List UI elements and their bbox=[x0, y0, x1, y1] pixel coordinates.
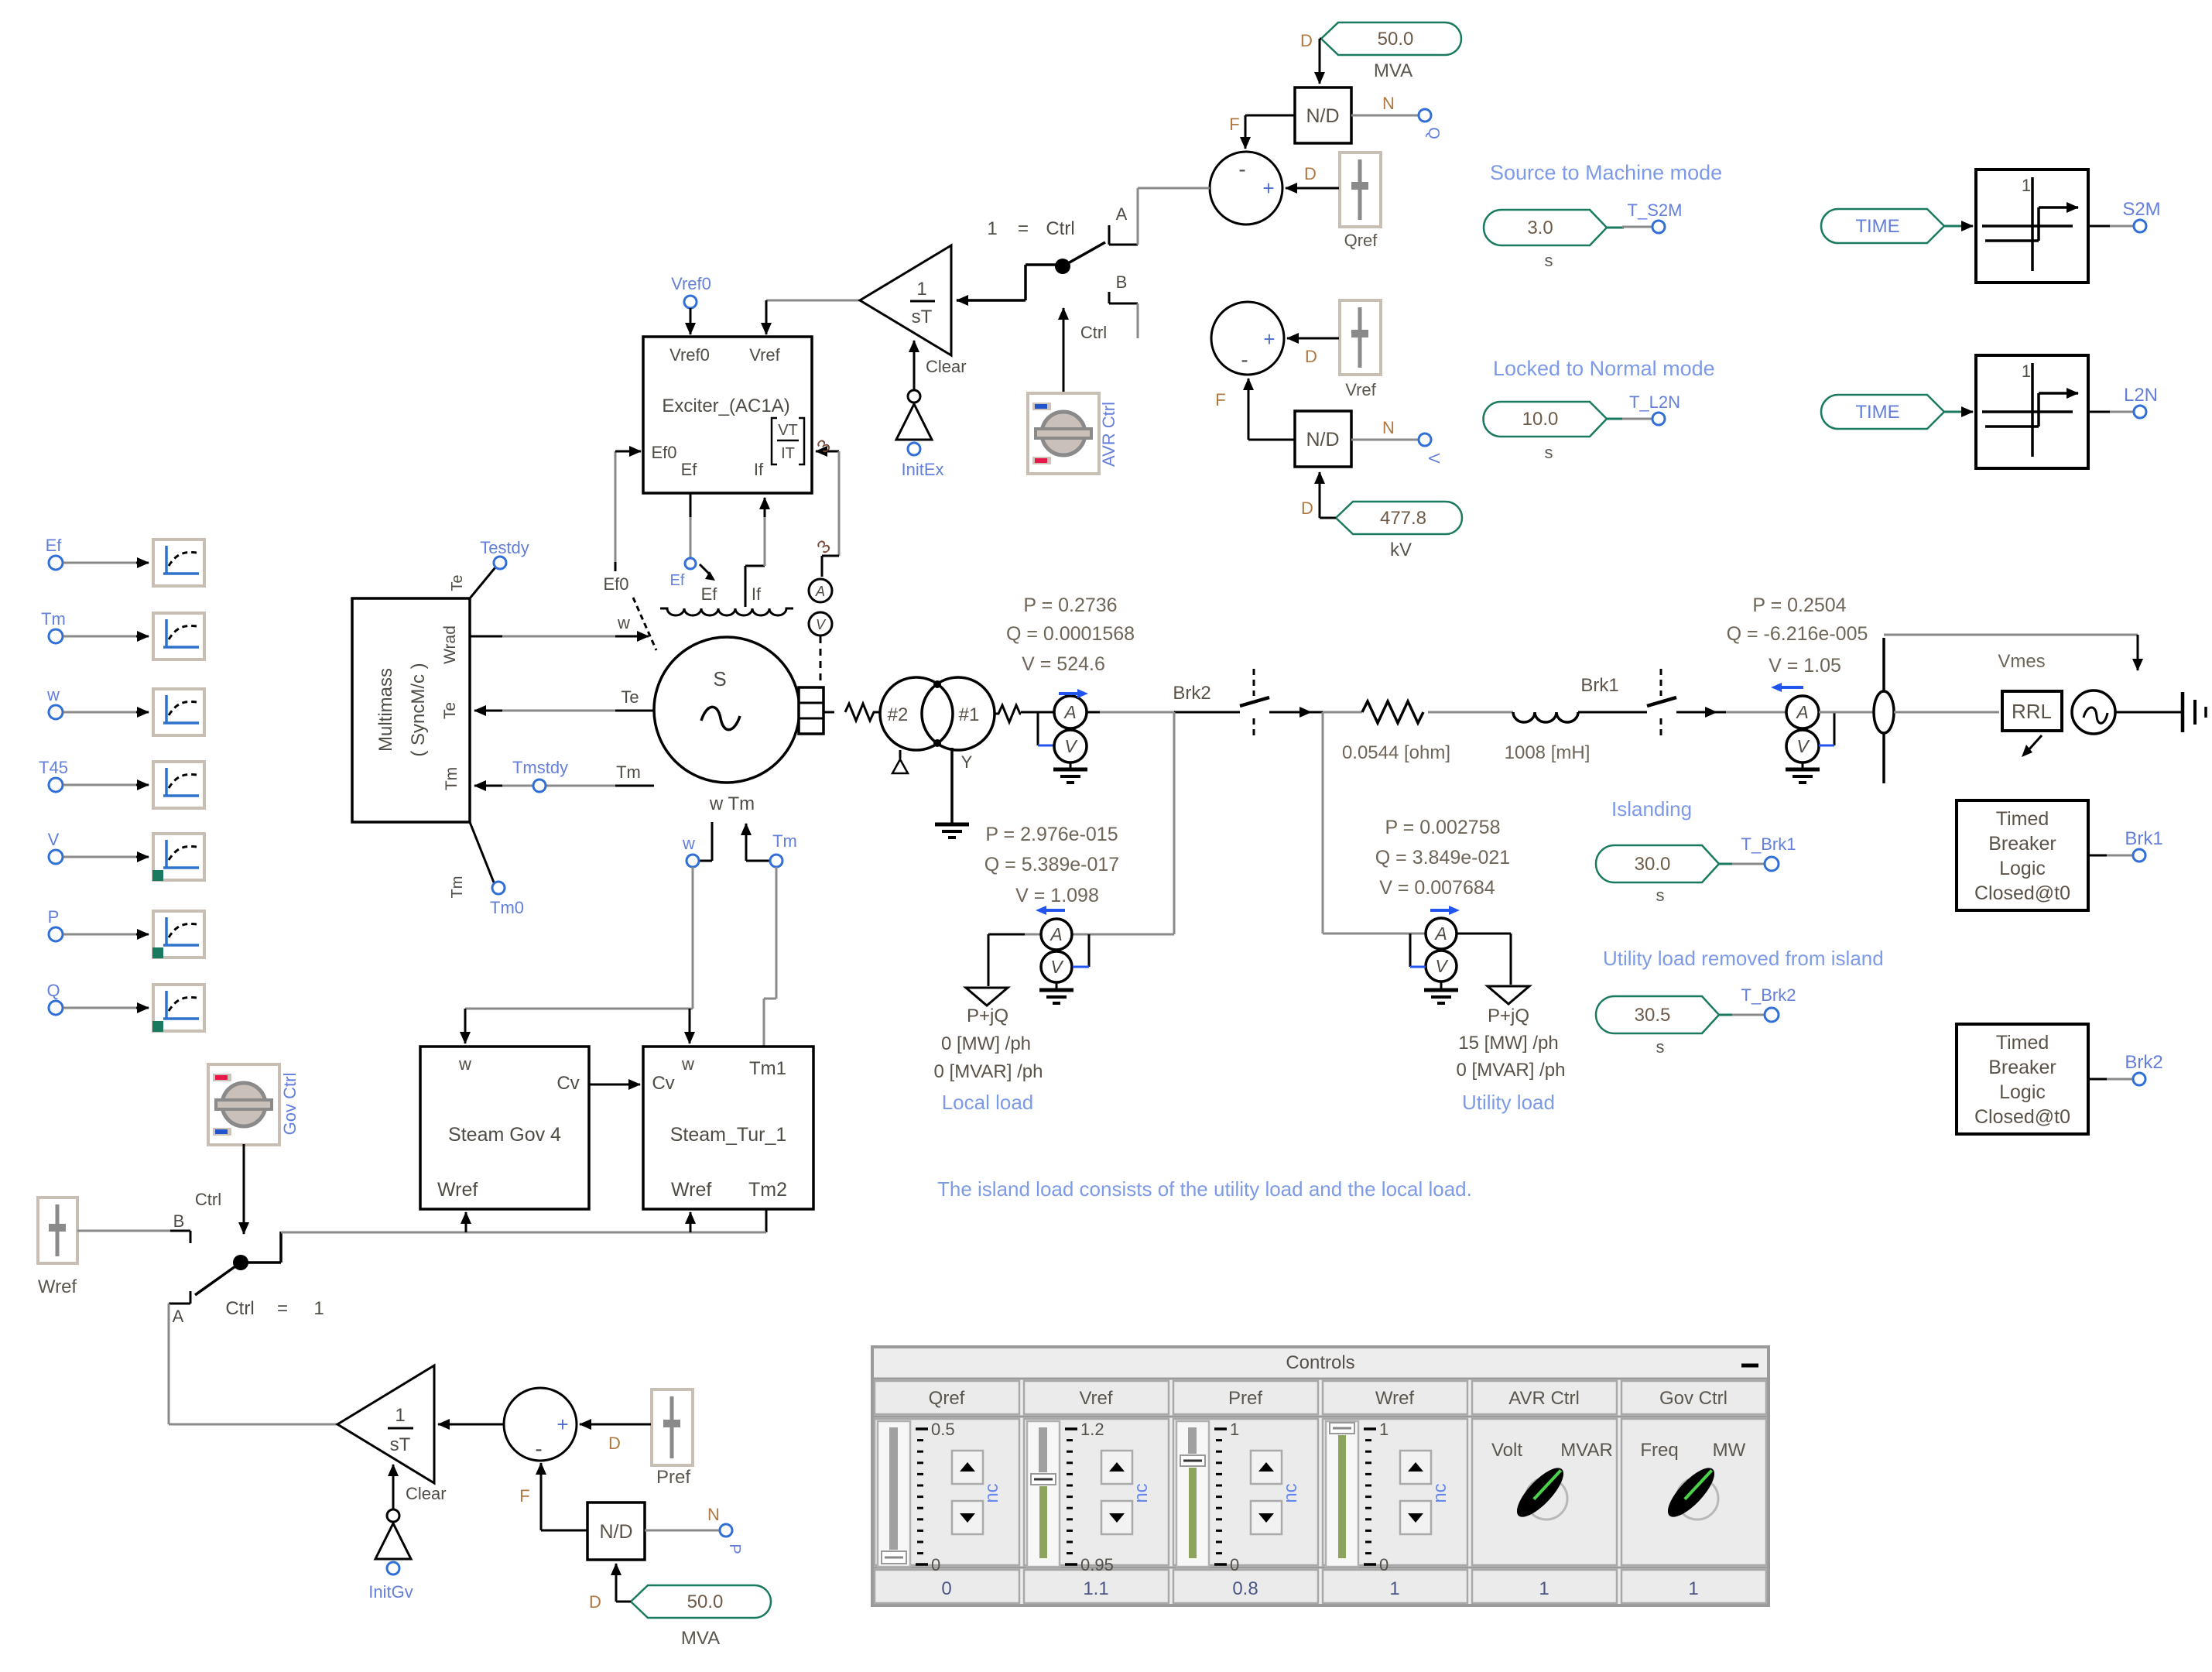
divider N/D (V pu) bbox=[1295, 411, 1351, 467]
svg-text:D: D bbox=[589, 1592, 601, 1612]
bus wire to Brk2 bbox=[1087, 711, 1240, 714]
svg-text:w: w bbox=[681, 1054, 694, 1074]
svg-text:S: S bbox=[713, 667, 726, 690]
svg-text:1: 1 bbox=[395, 1405, 405, 1426]
svg-text:1: 1 bbox=[313, 1298, 324, 1319]
svg-text:P: P bbox=[48, 907, 60, 927]
svg-text:N/D: N/D bbox=[1306, 105, 1339, 127]
machine terminal block bbox=[799, 687, 834, 734]
svg-text:V: V bbox=[1064, 736, 1078, 756]
svg-text:F: F bbox=[519, 1486, 529, 1506]
breaker Brk1 bbox=[1580, 669, 1717, 740]
summer (Qref comparison) bbox=[1210, 152, 1282, 224]
svg-text:1: 1 bbox=[2022, 361, 2031, 381]
svg-text:If: If bbox=[754, 460, 764, 479]
svg-text:Utility load: Utility load bbox=[1462, 1091, 1555, 1114]
panel dial AVR Ctrl bbox=[1491, 1440, 1613, 1523]
svg-text:TIME: TIME bbox=[1855, 216, 1899, 237]
svg-text:N: N bbox=[707, 1505, 720, 1524]
svg-text:Multimass: Multimass bbox=[375, 668, 396, 752]
utility load measurement text bbox=[1375, 817, 1510, 899]
svg-text:N/D: N/D bbox=[1306, 429, 1339, 451]
svg-text:Q = 3.849e-021: Q = 3.849e-021 bbox=[1375, 847, 1510, 869]
integrator 1/sT (AVR) bbox=[860, 245, 951, 355]
svg-text:1: 1 bbox=[1389, 1578, 1399, 1599]
svg-text:Te: Te bbox=[441, 702, 459, 719]
multimass (SyncM/c) block bbox=[352, 598, 470, 822]
comparator step block (L2N) bbox=[1963, 355, 2088, 468]
svg-text:0.0544 [ohm]: 0.0544 [ohm] bbox=[1342, 742, 1450, 763]
ammeter voltmeter (utility load) bbox=[1410, 906, 1511, 985]
svg-text:N/D: N/D bbox=[599, 1521, 632, 1543]
data label TIME (L2N) bbox=[1821, 395, 1963, 429]
svg-text:V: V bbox=[1050, 957, 1064, 977]
svg-text:D: D bbox=[1304, 164, 1317, 183]
svg-text:F: F bbox=[1229, 115, 1239, 134]
wire to source ammeter bbox=[1717, 711, 1786, 714]
ammeter voltmeter (machine terminal) bbox=[1038, 689, 1088, 762]
local load P+jQ bbox=[934, 988, 1043, 1114]
Vmes measurement wire bbox=[1884, 635, 2138, 672]
svg-text:Wref: Wref bbox=[437, 1179, 478, 1201]
svg-text:Testdy: Testdy bbox=[480, 538, 529, 557]
plot channel w bbox=[46, 685, 204, 735]
svg-text:10.0: 10.0 bbox=[1522, 409, 1559, 430]
svg-text:The island load consists of th: The island load consists of the utility … bbox=[937, 1177, 1472, 1201]
svg-text:D: D bbox=[1301, 499, 1313, 518]
svg-text:Source to Machine mode: Source to Machine mode bbox=[1490, 161, 1722, 184]
wire Ef0 (machine to exciter) bbox=[603, 451, 641, 594]
svg-text:1: 1 bbox=[1539, 1578, 1549, 1599]
svg-text:50.0: 50.0 bbox=[1378, 29, 1414, 50]
node Vref0 bbox=[671, 274, 711, 334]
svg-text:kV: kV bbox=[1390, 540, 1412, 560]
svg-text:+: + bbox=[1263, 327, 1275, 351]
comparator step block (S2M) bbox=[1963, 170, 2088, 283]
ground under voltmeter bbox=[1053, 762, 1087, 783]
measurement text P Q V (machine terminal) bbox=[1006, 594, 1135, 675]
timed breaker logic Brk1 bbox=[1957, 800, 2163, 910]
wire w to steam governor/turbine bbox=[465, 867, 693, 1043]
svg-text:TIME: TIME bbox=[1855, 402, 1899, 423]
svg-text:If: If bbox=[752, 584, 762, 604]
node Ef (field voltage) bbox=[670, 493, 718, 604]
svg-text:MVA: MVA bbox=[1374, 60, 1412, 81]
3-phase measurement tap with A V meters bbox=[809, 435, 839, 681]
source impedance RRL bbox=[2002, 691, 2062, 757]
svg-text:0: 0 bbox=[1230, 1555, 1239, 1574]
divider N/D (P pu) bbox=[587, 1502, 645, 1560]
svg-text:Vref: Vref bbox=[749, 345, 780, 365]
svg-text:Closed@t0: Closed@t0 bbox=[1974, 882, 2070, 904]
svg-text:Q = -6.216e-005: Q = -6.216e-005 bbox=[1727, 623, 1868, 645]
svg-text:D: D bbox=[1300, 31, 1313, 50]
svg-text:A: A bbox=[173, 1307, 184, 1326]
svg-text:Wrad: Wrad bbox=[441, 625, 459, 664]
comment: Source to Machine mode bbox=[1490, 161, 1722, 184]
panel slider Wref bbox=[1326, 1420, 1450, 1574]
svg-text:w: w bbox=[46, 685, 60, 704]
svg-text:F: F bbox=[1215, 390, 1225, 409]
summer (Pref comparison) bbox=[504, 1388, 577, 1461]
svg-text:V: V bbox=[1796, 736, 1810, 756]
svg-text:w: w bbox=[458, 1054, 471, 1074]
svg-text:Tmstdy: Tmstdy bbox=[512, 758, 568, 777]
svg-text:Qref: Qref bbox=[929, 1388, 965, 1409]
transformer 3-phase 2-winding bbox=[845, 677, 1054, 750]
node Tm0 bbox=[449, 822, 524, 917]
svg-text:s: s bbox=[1545, 251, 1553, 270]
data label 30.5 s -> T_Brk2 bbox=[1596, 985, 1796, 1057]
svg-text:w Tm: w Tm bbox=[709, 793, 755, 814]
wire w (multimass Wrad to machine) bbox=[470, 613, 649, 636]
svg-text:T_Brk2: T_Brk2 bbox=[1741, 985, 1796, 1005]
clear input (InitGv) bbox=[393, 1465, 447, 1509]
divider N/D (Q pu) bbox=[1295, 87, 1351, 143]
svg-text:Wref: Wref bbox=[1375, 1388, 1415, 1409]
Ctrl select arrow (Gov) bbox=[195, 1144, 244, 1234]
svg-text:Ef: Ef bbox=[701, 584, 718, 604]
two-position switch (Gov Ctrl) bbox=[77, 1211, 281, 1326]
wire D input (Qref) bbox=[1286, 164, 1339, 188]
data label 50.0 MVA bbox=[1300, 22, 1461, 84]
svg-text:sT: sT bbox=[912, 307, 933, 327]
svg-text:L2N: L2N bbox=[2124, 385, 2158, 406]
panel slider Pref bbox=[1176, 1420, 1301, 1574]
svg-text:s: s bbox=[1656, 886, 1665, 905]
panel slider Vref bbox=[1027, 1420, 1152, 1574]
svg-text:P = 0.002758: P = 0.002758 bbox=[1385, 817, 1501, 838]
wire D input (Vref) bbox=[1287, 338, 1339, 366]
svg-text:Wref: Wref bbox=[671, 1179, 711, 1201]
svg-text:+: + bbox=[1262, 176, 1274, 200]
svg-text:Te: Te bbox=[449, 574, 466, 591]
svg-text:Steam Gov 4: Steam Gov 4 bbox=[448, 1124, 561, 1146]
data label 50.0 MVA (governor) bbox=[589, 1564, 771, 1649]
svg-text:nc: nc bbox=[981, 1483, 1002, 1502]
buffer InitGv bbox=[368, 1509, 413, 1602]
svg-text:A: A bbox=[1795, 702, 1808, 722]
svg-text:Clear: Clear bbox=[406, 1484, 447, 1503]
svg-text:Ctrl: Ctrl bbox=[225, 1298, 254, 1319]
wire Wref bus to steam blocks bbox=[281, 1212, 766, 1232]
steam turbine block Steam_Tur_1 bbox=[643, 1047, 813, 1209]
svg-text:Clear: Clear bbox=[926, 357, 967, 376]
svg-text:Pref: Pref bbox=[1228, 1388, 1262, 1409]
slider Pref bbox=[652, 1389, 693, 1488]
svg-text:Vref0: Vref0 bbox=[669, 345, 710, 365]
svg-text:Ef0: Ef0 bbox=[603, 574, 628, 594]
svg-text:Te: Te bbox=[621, 687, 639, 707]
svg-text:( SyncM/c ): ( SyncM/c ) bbox=[408, 663, 429, 756]
svg-text:0 [MW] /ph: 0 [MW] /ph bbox=[941, 1033, 1031, 1054]
svg-text:Gov Ctrl: Gov Ctrl bbox=[1659, 1388, 1727, 1409]
svg-text:nc: nc bbox=[1280, 1483, 1301, 1502]
svg-text:15 [MW] /ph: 15 [MW] /ph bbox=[1458, 1033, 1558, 1054]
wire Cv governor to turbine bbox=[589, 1084, 640, 1086]
svg-text:-: - bbox=[535, 1437, 542, 1461]
summer (Vref comparison) bbox=[1211, 302, 1284, 375]
svg-text:A: A bbox=[1433, 923, 1447, 944]
svg-text:Ctrl: Ctrl bbox=[1080, 323, 1107, 342]
svg-text:0.5: 0.5 bbox=[931, 1420, 955, 1439]
svg-text:Wref: Wref bbox=[38, 1276, 77, 1297]
wire summer output to A contact bbox=[1138, 187, 1210, 190]
svg-text:V: V bbox=[816, 617, 827, 632]
machine field winding bbox=[633, 598, 793, 650]
wire Brk2 to series RL bbox=[1311, 711, 1362, 714]
node P input bbox=[645, 1505, 743, 1554]
svg-text:Vref: Vref bbox=[1079, 1388, 1112, 1409]
svg-text:Tm0: Tm0 bbox=[490, 898, 524, 917]
svg-text:Timed: Timed bbox=[1996, 808, 2049, 830]
plot channel Ef bbox=[46, 536, 204, 586]
svg-text:AVR Ctrl: AVR Ctrl bbox=[1099, 402, 1118, 467]
svg-text:A: A bbox=[1049, 924, 1062, 944]
svg-text:1.2: 1.2 bbox=[1080, 1420, 1104, 1439]
svg-text:Brk2: Brk2 bbox=[1173, 683, 1210, 704]
svg-text:0: 0 bbox=[1379, 1555, 1388, 1574]
controls panel bbox=[872, 1347, 1769, 1605]
svg-text:sT: sT bbox=[390, 1434, 411, 1455]
wire F (N/D to Vref summer) bbox=[1215, 379, 1296, 440]
wire A contact to governor integrator bbox=[169, 1304, 337, 1424]
svg-text:-: - bbox=[1238, 157, 1245, 181]
steam governor block Steam Gov 4 bbox=[420, 1047, 589, 1209]
svg-text:B: B bbox=[173, 1211, 185, 1231]
wire tap to local load bbox=[988, 712, 1174, 986]
plot channel V bbox=[48, 830, 204, 881]
plot channel Q bbox=[46, 981, 204, 1032]
svg-text:D: D bbox=[1305, 347, 1317, 366]
svg-text:Utility load removed from isla: Utility load removed from island bbox=[1603, 947, 1884, 970]
svg-text:1008 [mH]: 1008 [mH] bbox=[1505, 742, 1591, 763]
inductor 1008 mH bbox=[1505, 712, 1591, 763]
svg-text:s: s bbox=[1656, 1037, 1665, 1057]
svg-text:S2M: S2M bbox=[2122, 199, 2160, 220]
wire Tm with node Tmstdy bbox=[474, 758, 654, 792]
slider Wref bbox=[38, 1197, 77, 1297]
svg-text:InitEx: InitEx bbox=[901, 460, 943, 479]
comment: island load note bbox=[937, 1177, 1472, 1201]
svg-text:0: 0 bbox=[931, 1555, 940, 1574]
svg-text:V = 1.05: V = 1.05 bbox=[1769, 655, 1841, 677]
data label TIME (S2M) bbox=[1821, 209, 1963, 243]
svg-text:Timed: Timed bbox=[1996, 1032, 2049, 1054]
svg-text:Tm2: Tm2 bbox=[748, 1179, 787, 1201]
svg-text:V = 524.6: V = 524.6 bbox=[1022, 653, 1105, 675]
comment: Islanding bbox=[1611, 797, 1692, 821]
svg-text:-: - bbox=[1241, 348, 1248, 372]
wire F (N/D to summer) bbox=[1229, 115, 1295, 149]
svg-text:1: 1 bbox=[916, 279, 926, 300]
svg-text:Brk1: Brk1 bbox=[1580, 675, 1618, 696]
svg-text:MVAR: MVAR bbox=[1560, 1440, 1613, 1461]
breaker Brk2 bbox=[1173, 669, 1311, 740]
svg-text:w: w bbox=[617, 613, 630, 632]
node Q input bbox=[1351, 94, 1442, 139]
svg-text:Q: Q bbox=[1425, 127, 1442, 139]
svg-text:Pref: Pref bbox=[656, 1467, 690, 1488]
svg-text:s: s bbox=[1545, 443, 1553, 462]
svg-text:Closed@t0: Closed@t0 bbox=[1974, 1106, 2070, 1128]
single-line tap ellipse bbox=[1819, 638, 1999, 783]
svg-text:nc: nc bbox=[1430, 1483, 1450, 1502]
AC source bbox=[2072, 690, 2115, 734]
svg-text:1: 1 bbox=[2022, 176, 2031, 195]
ammeter voltmeter (source side) bbox=[1771, 683, 1834, 762]
plot channel Tm bbox=[41, 609, 204, 660]
svg-text:MW: MW bbox=[1713, 1440, 1746, 1461]
local load measurement text bbox=[984, 824, 1119, 906]
svg-text:Exciter_(AC1A): Exciter_(AC1A) bbox=[662, 396, 789, 416]
transformer delta winding symbol bbox=[892, 750, 908, 773]
svg-text:1: 1 bbox=[1230, 1420, 1239, 1439]
data label 10.0 s -> T_L2N bbox=[1484, 392, 1681, 462]
clear input (InitEx) bbox=[914, 341, 967, 390]
svg-text:Brk1: Brk1 bbox=[2125, 828, 2162, 849]
ground under utility voltmeter bbox=[1424, 982, 1458, 1003]
svg-text:0 [MVAR] /ph: 0 [MVAR] /ph bbox=[1457, 1060, 1566, 1081]
svg-text:1: 1 bbox=[1379, 1420, 1388, 1439]
svg-text:P = 0.2504: P = 0.2504 bbox=[1752, 594, 1846, 616]
svg-text:Locked to Normal mode: Locked to Normal mode bbox=[1493, 357, 1715, 380]
data label 3.0 s -> T_S2M bbox=[1484, 200, 1682, 270]
svg-text:1.1: 1.1 bbox=[1083, 1578, 1108, 1599]
svg-text:T_S2M: T_S2M bbox=[1628, 200, 1683, 220]
svg-text:V: V bbox=[48, 830, 60, 849]
node S2M bbox=[2088, 199, 2161, 232]
measurement text P Q V (source side) bbox=[1727, 594, 1868, 677]
svg-text:477.8: 477.8 bbox=[1380, 508, 1426, 529]
svg-text:P+jQ: P+jQ bbox=[967, 1006, 1008, 1026]
svg-text:=: = bbox=[277, 1298, 288, 1319]
svg-text:=: = bbox=[1018, 218, 1029, 239]
svg-text:T_L2N: T_L2N bbox=[1629, 392, 1680, 412]
svg-text:Cv: Cv bbox=[556, 1073, 579, 1094]
svg-text:Tm1: Tm1 bbox=[749, 1058, 786, 1079]
comment: Utility load removed from island bbox=[1603, 947, 1884, 970]
svg-text:Q = 0.0001568: Q = 0.0001568 bbox=[1006, 623, 1135, 645]
svg-text:B: B bbox=[1116, 272, 1128, 292]
svg-text:Controls: Controls bbox=[1286, 1352, 1354, 1373]
svg-text:Q = 5.389e-017: Q = 5.389e-017 bbox=[984, 854, 1119, 875]
wire Tm2 stub bbox=[765, 1209, 768, 1232]
svg-text:N: N bbox=[1382, 94, 1395, 113]
node V input bbox=[1351, 418, 1442, 464]
svg-text:VT: VT bbox=[778, 422, 798, 439]
svg-text:A: A bbox=[1116, 204, 1128, 224]
wire Tm1 from turbine to machine bbox=[764, 867, 776, 1047]
svg-text:Tm: Tm bbox=[616, 762, 641, 782]
svg-text:A: A bbox=[815, 584, 825, 599]
slider Qref bbox=[1340, 152, 1381, 250]
svg-text:0 [MVAR] /ph: 0 [MVAR] /ph bbox=[934, 1061, 1043, 1082]
two-position switch (AVR Ctrl) bbox=[957, 188, 1138, 338]
wire D input (Pref) bbox=[580, 1424, 651, 1453]
panel dial Gov Ctrl bbox=[1640, 1440, 1745, 1523]
svg-text:A: A bbox=[1063, 702, 1076, 722]
svg-text:Qref: Qref bbox=[1344, 231, 1378, 250]
label Ctrl = 1 bbox=[225, 1298, 324, 1319]
svg-text:Vmes: Vmes bbox=[1998, 651, 2045, 672]
svg-text:3.0: 3.0 bbox=[1527, 218, 1553, 238]
node Testdy bbox=[449, 538, 529, 598]
svg-text:V = 1.098: V = 1.098 bbox=[1015, 885, 1099, 906]
svg-text:Ef0: Ef0 bbox=[651, 443, 676, 462]
svg-text:P: P bbox=[726, 1544, 743, 1554]
slider Vref bbox=[1340, 300, 1381, 399]
svg-text:Local load: Local load bbox=[942, 1091, 1034, 1114]
svg-text:T45: T45 bbox=[39, 758, 68, 777]
svg-text:30.0: 30.0 bbox=[1635, 854, 1671, 875]
svg-text:Freq: Freq bbox=[1640, 1440, 1678, 1461]
svg-text:#2: #2 bbox=[888, 704, 909, 725]
buffer InitEx bbox=[896, 390, 944, 479]
svg-text:V: V bbox=[1435, 956, 1449, 976]
svg-text:Gov Ctrl: Gov Ctrl bbox=[280, 1073, 300, 1136]
svg-text:Logic: Logic bbox=[1999, 858, 2046, 879]
utility load P+jQ bbox=[1457, 986, 1566, 1114]
svg-text:Brk2: Brk2 bbox=[2125, 1052, 2162, 1073]
svg-text:MVA: MVA bbox=[681, 1628, 720, 1649]
svg-text:RRL: RRL bbox=[2012, 700, 2052, 723]
svg-text:N: N bbox=[1382, 418, 1395, 437]
svg-text:0.95: 0.95 bbox=[1080, 1555, 1114, 1574]
dial Gov Ctrl bbox=[208, 1064, 300, 1145]
svg-text:0: 0 bbox=[941, 1578, 951, 1599]
svg-text:Logic: Logic bbox=[1999, 1081, 2046, 1103]
svg-text:P+jQ: P+jQ bbox=[1488, 1006, 1529, 1026]
transformer Y winding ground bbox=[935, 748, 973, 838]
svg-text:Ctrl: Ctrl bbox=[1046, 218, 1074, 239]
panel slider Qref bbox=[878, 1420, 1002, 1574]
svg-text:InitGv: InitGv bbox=[368, 1582, 413, 1602]
svg-text:V = 0.007684: V = 0.007684 bbox=[1379, 877, 1495, 899]
svg-text:Tm: Tm bbox=[449, 876, 466, 899]
svg-text:Tm: Tm bbox=[772, 831, 797, 851]
svg-text:50.0: 50.0 bbox=[687, 1591, 724, 1612]
svg-text:Islanding: Islanding bbox=[1611, 797, 1692, 821]
svg-text:P = 0.2736: P = 0.2736 bbox=[1023, 594, 1117, 616]
wire If (field current to exciter) bbox=[745, 498, 765, 607]
svg-text:IT: IT bbox=[781, 445, 795, 462]
plot channel T45 bbox=[39, 758, 204, 808]
wire resistor to inductor bbox=[1428, 711, 1513, 714]
timed breaker logic Brk2 bbox=[1957, 1024, 2163, 1134]
svg-text:0.8: 0.8 bbox=[1232, 1578, 1258, 1599]
svg-text:Vref0: Vref0 bbox=[671, 274, 711, 293]
integrator 1/sT (governor) bbox=[337, 1365, 434, 1483]
wire tap to utility load bbox=[1323, 712, 1425, 934]
svg-text:AVR Ctrl: AVR Ctrl bbox=[1508, 1388, 1580, 1409]
svg-text:Ctrl: Ctrl bbox=[195, 1190, 221, 1209]
svg-text:Breaker: Breaker bbox=[1988, 833, 2056, 855]
resistor 0.0544 ohm bbox=[1342, 701, 1450, 763]
machine w Tm bottom ports bbox=[682, 793, 797, 867]
svg-text:nc: nc bbox=[1131, 1483, 1152, 1502]
plot channel P bbox=[48, 907, 204, 958]
svg-text:#1: #1 bbox=[959, 704, 980, 725]
svg-text:1: 1 bbox=[987, 218, 997, 239]
svg-text:Q: Q bbox=[46, 981, 60, 1000]
svg-text:Ef: Ef bbox=[681, 460, 698, 479]
svg-text:T_Brk1: T_Brk1 bbox=[1741, 834, 1796, 854]
svg-text:+: + bbox=[556, 1413, 568, 1436]
wire inductor to Brk1 bbox=[1578, 711, 1647, 714]
svg-text:30.5: 30.5 bbox=[1635, 1005, 1671, 1026]
dial AVR Ctrl bbox=[1028, 393, 1118, 474]
